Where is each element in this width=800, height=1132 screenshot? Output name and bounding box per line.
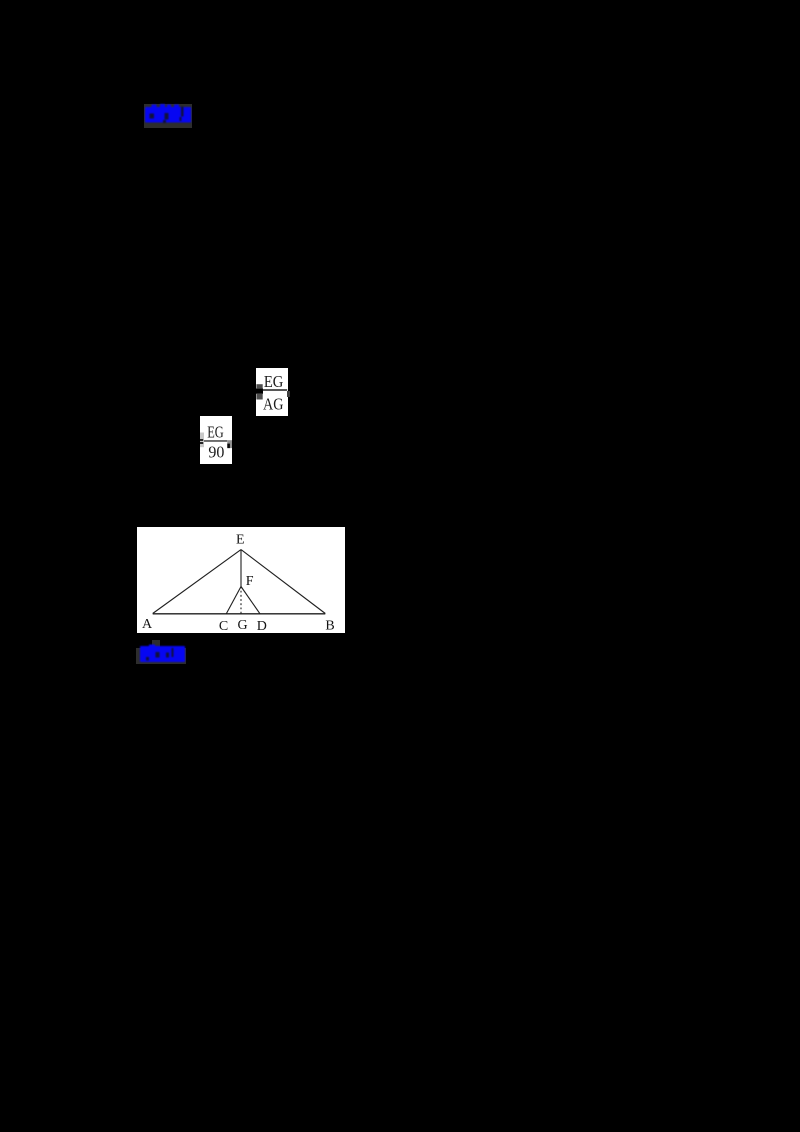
svg-text:D: D bbox=[257, 619, 267, 633]
right gray square with degree dot bbox=[227, 440, 232, 448]
equals glyph black bbox=[200, 439, 203, 441]
fraction EG/AG image box bbox=[256, 368, 288, 416]
svg-text:EG: EG bbox=[207, 423, 224, 442]
white background of figure bbox=[137, 527, 345, 633]
svg-text:E: E bbox=[236, 533, 245, 548]
dashed FG bbox=[240, 587, 242, 614]
label tag2 background bbox=[136, 648, 186, 664]
degree mark after EG/AG bbox=[287, 391, 290, 397]
svg-text:C: C bbox=[219, 619, 228, 633]
svg-text:B: B bbox=[325, 618, 334, 633]
segment EF bbox=[240, 550, 242, 587]
geometry figure image bbox=[137, 527, 345, 633]
side AE bbox=[153, 550, 241, 614]
label tag2 blue text blob bbox=[139, 644, 187, 664]
label tag1 blue text blob bbox=[143, 103, 193, 125]
left highlight strip bbox=[200, 433, 204, 448]
base AB bbox=[153, 613, 326, 615]
notch of equals over box edge bbox=[256, 389, 263, 394]
fraction bar gray bbox=[200, 440, 232, 441]
fraction bar bbox=[262, 389, 287, 390]
side FC bbox=[226, 587, 241, 614]
fraction EG/90 image box bbox=[200, 416, 232, 464]
side EB bbox=[241, 550, 325, 614]
svg-text:90: 90 bbox=[208, 442, 224, 461]
svg-text:A: A bbox=[142, 617, 153, 632]
svg-text:AG: AG bbox=[263, 395, 283, 414]
side FD bbox=[241, 587, 260, 614]
svg-text:F: F bbox=[246, 574, 254, 589]
svg-text:G: G bbox=[238, 618, 248, 633]
label tag2 gray tab above bbox=[152, 640, 160, 648]
label tag1 background bbox=[144, 104, 192, 128]
svg-text:EG: EG bbox=[264, 372, 284, 391]
